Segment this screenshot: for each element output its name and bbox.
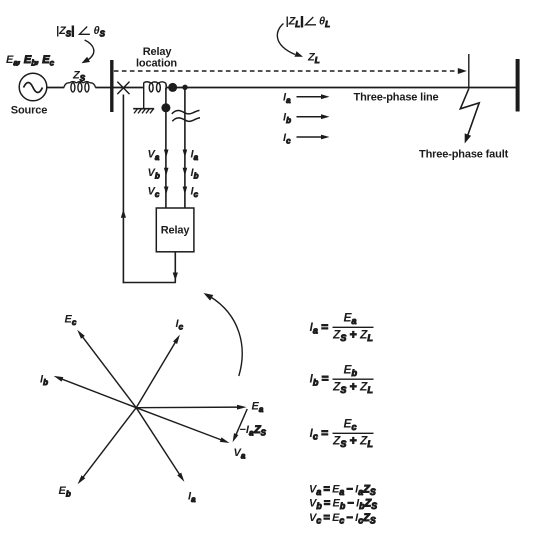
trip wire to breaker	[122, 95, 124, 284]
wire inductor to bus	[95, 87, 143, 89]
three-phase line	[166, 87, 516, 89]
svg-text:Va = Ea − IaZS: Va = Ea − IaZS	[309, 483, 376, 497]
equation Ib	[310, 362, 374, 395]
phasor -IaZs drop	[235, 409, 247, 437]
svg-text:Ib: Ib	[191, 167, 199, 181]
svg-text:Ea: Ea	[252, 401, 264, 415]
VT wire (voltage leads)	[165, 88, 167, 208]
svg-text:Ea: Ea	[344, 311, 357, 327]
bus bar B2	[516, 59, 520, 112]
bus bar B1	[110, 60, 113, 112]
svg-text:Ea, Eb, Ec: Ea, Eb, Ec	[6, 54, 55, 68]
source G1	[19, 73, 47, 101]
trip arrow up	[121, 210, 126, 218]
arrow Vb	[164, 168, 169, 176]
dashed line ZL measurement	[114, 70, 461, 72]
annotation arrow to ZL	[277, 24, 295, 55]
breaker X	[117, 82, 129, 95]
svg-text:Three-phase fault: Three-phase fault	[419, 149, 509, 161]
wire source to inductor	[47, 87, 64, 89]
svg-text:Ec: Ec	[344, 417, 357, 433]
relay output arrow down	[173, 273, 178, 281]
relay output wire	[174, 252, 176, 283]
inductor ZS	[64, 82, 96, 92]
svg-text:Ia: Ia	[191, 149, 199, 163]
svg-text:ZS + ZL: ZS + ZL	[332, 380, 373, 396]
junction node on line	[168, 83, 177, 92]
squiggle break	[172, 110, 200, 121]
svg-text:ZS + ZL: ZS + ZL	[332, 434, 373, 450]
arrow Ib line current	[297, 116, 323, 118]
arrow Vc	[164, 187, 169, 195]
svg-text:Va: Va	[148, 149, 160, 163]
svg-text:Vb: Vb	[148, 167, 160, 181]
svg-text:ZS: ZS	[72, 70, 86, 84]
arrow Ia	[183, 150, 188, 158]
svg-text:Ic =: Ic =	[310, 426, 329, 442]
svg-text:Vc: Vc	[148, 186, 160, 200]
CT secondary wire (current leads)	[184, 88, 186, 209]
svg-text:location: location	[136, 58, 177, 70]
phasor Ib	[59, 378, 136, 408]
svg-text:Relay: Relay	[143, 46, 173, 58]
svg-text:Eb: Eb	[344, 362, 358, 378]
phasor Va	[136, 408, 224, 441]
svg-text:θS: θS	[94, 25, 106, 39]
arrow Ic line current	[297, 136, 323, 138]
trip wire bottom	[123, 282, 176, 284]
phasor Ea	[136, 406, 241, 409]
relay U1	[156, 208, 194, 252]
svg-text:Three-phase line: Three-phase line	[354, 92, 439, 104]
curved arrow phasors to relay	[210, 297, 242, 377]
svg-text:Vc = Ec − IcZS: Vc = Ec − IcZS	[309, 512, 376, 526]
svg-text:Ib: Ib	[40, 374, 48, 388]
svg-text:Ic: Ic	[283, 132, 291, 146]
node tap for current	[182, 85, 187, 90]
CT coil	[144, 82, 167, 92]
svg-text:Ia: Ia	[283, 92, 291, 106]
svg-text:−IaZS: −IaZS	[240, 424, 267, 438]
equation Ia	[310, 311, 374, 344]
arrow Ia line current	[297, 96, 323, 98]
fault bolt	[460, 89, 479, 137]
svg-text:Vb = Eb − IbZS: Vb = Eb − IbZS	[309, 498, 377, 512]
phasor Eb	[81, 408, 136, 480]
svg-text:Ic: Ic	[191, 186, 199, 200]
svg-text:Ia =: Ia =	[310, 320, 329, 336]
equation Ic	[310, 417, 374, 450]
CT ground lead	[143, 83, 145, 109]
fault location tick	[468, 54, 470, 88]
phasor Ic	[136, 340, 177, 408]
svg-text:Source: Source	[11, 105, 47, 117]
svg-text:ZS + ZL: ZS + ZL	[332, 328, 373, 344]
svg-text:Va: Va	[234, 447, 246, 461]
VT node dot	[161, 103, 170, 112]
svg-text:Ec: Ec	[65, 314, 77, 328]
svg-text:Eb: Eb	[59, 485, 71, 499]
svg-text:Ia: Ia	[188, 491, 196, 505]
arrow Va	[164, 150, 169, 158]
ground	[133, 109, 154, 114]
svg-text:ZL: ZL	[307, 52, 320, 66]
svg-text:Relay: Relay	[161, 225, 191, 237]
phasor Ec	[81, 334, 137, 407]
phasor Ia	[136, 408, 181, 477]
svg-text:Ib: Ib	[283, 112, 291, 126]
arrow Ib	[183, 168, 188, 176]
svg-text:|ZS|: |ZS|	[56, 25, 74, 39]
svg-text:θL: θL	[319, 16, 330, 30]
svg-text:Ib =: Ib =	[310, 372, 329, 388]
annotation arrow to ZS	[85, 40, 94, 61]
arrow Ic	[183, 187, 188, 195]
svg-text:Ic: Ic	[176, 318, 184, 332]
svg-text:|ZL|: |ZL|	[286, 16, 304, 30]
